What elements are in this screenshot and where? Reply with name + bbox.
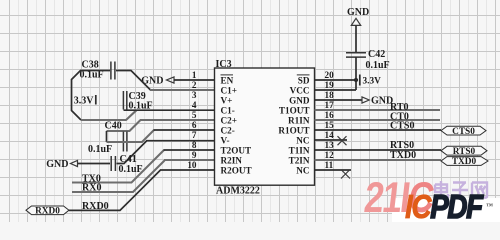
svg-text:0.1uF: 0.1uF xyxy=(88,144,112,155)
svg-text:NC: NC xyxy=(296,135,309,145)
wire pin12 T2IN xyxy=(315,159,442,161)
svg-text:EN: EN xyxy=(221,75,234,85)
wire 3.3V ring bottom to pin4 diagonal xyxy=(81,110,137,120)
net label RTS0 xyxy=(390,140,414,151)
power port GND (pin 1) xyxy=(141,75,174,86)
pin number 17 xyxy=(325,100,335,110)
wire C42 to node xyxy=(355,57,357,80)
wire pin2 C1+ xyxy=(150,89,215,91)
watermark ICPDF logo text xyxy=(405,189,493,226)
net label RXD0 xyxy=(82,201,109,212)
pin number 13 xyxy=(325,140,335,150)
svg-text:14: 14 xyxy=(325,130,335,140)
svg-text:3.3V: 3.3V xyxy=(74,96,95,107)
pin number 6 xyxy=(192,120,197,130)
svg-text:9: 9 xyxy=(192,150,197,160)
svg-text:C2+: C2+ xyxy=(221,115,237,125)
svg-text:SD: SD xyxy=(298,75,310,85)
pin number 7 xyxy=(192,130,197,140)
wire GND to C41 xyxy=(78,163,111,165)
svg-text:V-: V- xyxy=(221,135,230,145)
svg-text:7: 7 xyxy=(192,130,197,140)
wire C40 bottom to pin6 xyxy=(107,130,155,142)
wire pin15 R1OUT xyxy=(315,129,442,131)
svg-text:16: 16 xyxy=(325,110,335,120)
wire C40 top to pin5 xyxy=(107,120,141,131)
node junction pin20/VCC xyxy=(354,78,358,82)
label C39 xyxy=(129,91,146,102)
power port GND (top, C42) xyxy=(347,7,369,25)
svg-text:R2IN: R2IN xyxy=(221,155,243,165)
svg-text:6: 6 xyxy=(192,120,197,130)
pin name C1- (pin 4) xyxy=(221,105,235,115)
svg-text:™: ™ xyxy=(486,202,493,210)
wire pin16 R1IN xyxy=(315,119,441,121)
pin name T2OUT (pin 8) xyxy=(221,145,252,155)
power port GND (C41) xyxy=(46,159,77,170)
svg-text:1: 1 xyxy=(192,70,197,80)
svg-text:CTS0: CTS0 xyxy=(390,121,414,132)
label C38 xyxy=(82,59,99,70)
wire pin6 C2- xyxy=(154,129,216,131)
wire GND to C42 xyxy=(355,25,357,52)
svg-text:3.3V: 3.3V xyxy=(363,77,382,87)
label C40 xyxy=(105,121,122,132)
label ADM3222 xyxy=(216,185,260,196)
wire pin19 VCC xyxy=(315,79,357,90)
port RXD0 xyxy=(26,206,69,216)
pin number 4 xyxy=(192,100,197,110)
power port 3.3V (right) xyxy=(360,75,381,87)
wire pin11 NC stub xyxy=(315,169,352,171)
pin number 10 xyxy=(187,160,197,170)
pin name NC (pin 14) xyxy=(296,135,309,145)
wire RX0 to pin9 xyxy=(72,161,165,193)
pin number 2 xyxy=(192,80,197,90)
pin name T2IN (pin 12) xyxy=(289,155,310,165)
svg-text:VCC: VCC xyxy=(290,85,310,95)
wire pin4 C1- xyxy=(124,109,216,111)
pin number 8 xyxy=(192,140,197,150)
pin name R2IN (pin 9) xyxy=(221,155,243,165)
pin number 19 xyxy=(325,80,335,90)
svg-text:GND: GND xyxy=(289,95,310,105)
svg-text:11: 11 xyxy=(325,160,334,170)
pin number 12 xyxy=(325,150,335,160)
svg-text:0.1uF: 0.1uF xyxy=(119,164,143,175)
svg-text:GND: GND xyxy=(347,7,369,18)
power port 3.3V xyxy=(74,95,96,107)
svg-text:5: 5 xyxy=(192,110,197,120)
capacitor C41 xyxy=(111,156,115,171)
wire C38 left to 3.3V ring xyxy=(72,71,111,121)
pin name V+ (pin 3) xyxy=(221,95,233,105)
svg-text:10: 10 xyxy=(187,160,197,170)
pin name T1IN (pin 13) xyxy=(289,145,310,155)
wire pin5 C2+ xyxy=(140,119,215,121)
pin number 16 xyxy=(325,110,335,120)
capacitor C38 xyxy=(111,62,115,80)
wire pin8 T2OUT xyxy=(164,149,216,151)
capacitor C39 xyxy=(123,91,126,110)
pin name C2- (pin 6) xyxy=(221,125,235,135)
svg-text:C42: C42 xyxy=(368,49,385,60)
net label CT0 xyxy=(390,112,409,123)
svg-text:R1OUT: R1OUT xyxy=(278,125,309,135)
svg-text:18: 18 xyxy=(325,90,335,100)
pin number 15 xyxy=(325,120,335,130)
svg-text:IC3: IC3 xyxy=(216,59,232,70)
port RTS0 xyxy=(441,146,487,157)
op-amp U IC3 ADM3222 body xyxy=(215,68,315,185)
watermark 21IC xyxy=(362,174,437,222)
svg-text:T2IN: T2IN xyxy=(289,155,310,165)
net label TX0 xyxy=(82,173,101,184)
net label RX0 xyxy=(82,182,101,193)
wire pin17 T1OUT xyxy=(315,109,441,111)
svg-text:RXD0: RXD0 xyxy=(35,206,60,216)
svg-text:13: 13 xyxy=(325,140,335,150)
wire pin14 NC stub xyxy=(315,139,348,141)
pin number 20 xyxy=(325,70,335,80)
pin number 9 xyxy=(192,150,197,160)
pin name NC (pin 11) xyxy=(296,165,309,175)
pin name T1OUT (pin 17) xyxy=(279,105,310,115)
wire pin20 SD xyxy=(315,79,357,81)
svg-text:T1IN: T1IN xyxy=(289,145,310,155)
pin number 1 xyxy=(192,70,197,80)
pin name R2OUT (pin 10) xyxy=(221,165,252,175)
svg-text:V+: V+ xyxy=(221,95,233,105)
net label CTS0 xyxy=(390,121,414,132)
wire pin1 EN xyxy=(174,79,215,81)
label C41 xyxy=(120,154,137,165)
svg-text:15: 15 xyxy=(325,120,335,130)
wire pin7 V- xyxy=(146,140,215,142)
svg-text:0.1uF: 0.1uF xyxy=(366,60,390,71)
svg-text:4: 4 xyxy=(192,100,197,110)
wire pin13 T1IN xyxy=(315,149,442,151)
svg-text:RTS0: RTS0 xyxy=(453,147,476,157)
value 0.1uF (C38) xyxy=(80,70,104,81)
label C42 xyxy=(368,49,385,60)
svg-text:CTS0: CTS0 xyxy=(452,127,475,137)
wire RXD0 to pin10 xyxy=(69,170,161,210)
svg-text:19: 19 xyxy=(325,80,335,90)
no-connect X pin11 xyxy=(341,170,350,179)
pin name R1IN (pin 16) xyxy=(288,115,310,125)
wire C40 left vertical xyxy=(106,131,108,142)
value 0.1uF (C42) xyxy=(366,60,390,71)
svg-text:ADM3222: ADM3222 xyxy=(216,185,260,196)
wire pin10 R2OUT xyxy=(160,169,215,171)
net label TXD0 xyxy=(390,150,416,161)
pin name C1+ (pin 2) xyxy=(221,85,237,95)
value 0.1uF (C40) xyxy=(88,144,112,155)
watermark white box ICPDF xyxy=(392,198,500,222)
svg-text:NC: NC xyxy=(296,165,309,175)
wire pin18 GND xyxy=(315,99,363,101)
pin name GND (pin 18) xyxy=(289,95,310,105)
no-connect X pin14 xyxy=(338,136,347,145)
svg-text:C2-: C2- xyxy=(221,125,235,135)
svg-text:8: 8 xyxy=(192,140,197,150)
svg-text:R2OUT: R2OUT xyxy=(221,165,252,175)
capacitor C42 xyxy=(346,53,366,57)
pin number 18 xyxy=(325,90,335,100)
value 0.1uF (C39) xyxy=(129,101,153,112)
capacitor C40 xyxy=(123,132,127,152)
label IC3 xyxy=(216,59,232,70)
wire C41 right diagonal to pin 7 xyxy=(117,141,147,164)
net label RT0 xyxy=(390,102,409,113)
wire TX0 to pin8 xyxy=(72,150,164,183)
watermark 电子网 glyphs xyxy=(435,181,487,198)
port CTS0 xyxy=(441,126,486,137)
pin number 11 xyxy=(325,160,334,170)
svg-text:3: 3 xyxy=(192,90,197,100)
pin number 5 xyxy=(192,110,197,120)
svg-text:TXD0: TXD0 xyxy=(390,150,416,161)
pin name EN (pin 1) xyxy=(221,75,234,86)
value 0.1uF (C41) xyxy=(119,164,143,175)
svg-text:2: 2 xyxy=(192,80,197,90)
pin name SD (pin 20) xyxy=(297,75,310,86)
wire pin9 R2IN xyxy=(164,159,215,161)
pin name R1OUT (pin 15) xyxy=(278,125,309,135)
svg-text:T2OUT: T2OUT xyxy=(221,145,252,155)
svg-text:ICPDF: ICPDF xyxy=(405,189,484,222)
svg-text:C1-: C1- xyxy=(221,105,235,115)
svg-text:17: 17 xyxy=(325,100,335,110)
pin name V- (pin 7) xyxy=(221,135,230,145)
pin name C2+ (pin 5) xyxy=(221,115,237,125)
pin name VCC (pin 19) xyxy=(290,85,310,95)
svg-text:TXD0: TXD0 xyxy=(452,157,477,167)
pin number 3 xyxy=(192,90,197,100)
svg-text:12: 12 xyxy=(325,150,335,160)
svg-text:20: 20 xyxy=(325,70,335,80)
wire C38 right diagonal to pin 2 xyxy=(116,71,151,91)
svg-text:T1OUT: T1OUT xyxy=(279,105,310,115)
svg-text:C1+: C1+ xyxy=(221,85,237,95)
power port GND (pin 18) xyxy=(362,96,393,107)
pin number 14 xyxy=(325,130,335,140)
svg-text:R1IN: R1IN xyxy=(288,115,310,125)
port TXD0 xyxy=(441,157,488,168)
svg-text:GND: GND xyxy=(46,159,68,170)
